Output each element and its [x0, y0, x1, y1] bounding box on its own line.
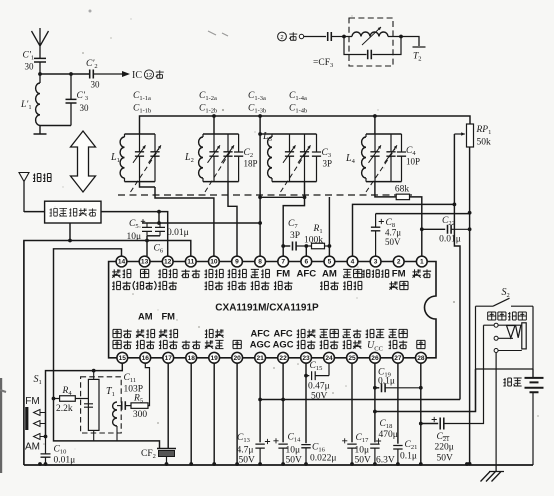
svg-text:50k: 50k [477, 138, 492, 148]
pin 15 circle [117, 352, 128, 363]
wire gang link L1 [131, 149, 160, 192]
label C6 value [167, 228, 189, 238]
node pin28 taps [419, 386, 423, 426]
svg-text:27: 27 [394, 355, 402, 362]
svg-text:300: 300 [133, 410, 148, 420]
svg-text:10P: 10P [406, 157, 420, 167]
svg-text:16: 16 [142, 355, 150, 362]
label C17 value1 [355, 446, 370, 456]
pin 7 circle [278, 256, 289, 267]
label pin23 t1 [297, 329, 316, 337]
svg-text:13: 13 [141, 259, 149, 266]
svg-text:FM: FM [161, 311, 175, 322]
label pin9 text0 [228, 269, 247, 277]
pin 19 circle [209, 352, 220, 363]
label C11 [124, 373, 137, 384]
op-amp IC U1 CXA1191 body [109, 262, 436, 358]
box T1 dashed [81, 377, 122, 433]
ground chassis inset [34, 126, 47, 135]
label C11 value [124, 385, 144, 395]
capacitor C21b [432, 325, 484, 429]
wire W1 filter out [101, 212, 168, 257]
wire RP1 bottom rail [469, 147, 471, 465]
svg-text:6: 6 [304, 259, 308, 266]
wire line2 Ucc [375, 369, 476, 412]
node C15 tap [304, 374, 308, 378]
svg-text:1: 1 [420, 259, 424, 266]
label R4 [62, 386, 73, 397]
node W1 stub [157, 210, 161, 225]
label C8 value1 [385, 228, 401, 238]
label C2 value [244, 159, 258, 169]
label C4 [406, 146, 416, 157]
svg-text:AFC: AFC [273, 328, 292, 339]
capacitor L1 tank gang b [149, 134, 162, 182]
capacitor L4 tank gang b [385, 134, 398, 182]
antenna terminal 天线 [19, 173, 29, 213]
label C19 [378, 368, 391, 379]
wire pin28 riser [420, 363, 422, 465]
transformer T2 terminal [401, 37, 426, 63]
wire C19 net [375, 387, 379, 389]
node W2 junctions [68, 239, 149, 243]
svg-text:0.01μ: 0.01μ [54, 456, 76, 466]
svg-text:30: 30 [25, 62, 35, 72]
label pin15 t2 [113, 340, 132, 348]
pin 23 circle [301, 352, 312, 363]
svg-text:10μ: 10μ [286, 446, 301, 456]
capacitor C10 [41, 437, 51, 466]
label C5 value [127, 232, 142, 242]
wire L2 tank bottom [203, 181, 239, 183]
wire W3 supply [142, 222, 260, 224]
svg-text:4.7μ: 4.7μ [385, 228, 401, 238]
pin 17 circle [163, 352, 174, 363]
connector earphone plug [507, 323, 527, 349]
svg-text:24: 24 [325, 355, 333, 362]
pin 13 circle [139, 256, 150, 267]
svg-text:0.1μ: 0.1μ [378, 377, 395, 387]
capacitor C7 [293, 242, 312, 251]
capacitor C13 [255, 439, 270, 465]
switch S2 [476, 298, 534, 306]
inductor L1 tank [120, 134, 124, 182]
wire pin7 C7 wire [283, 245, 290, 247]
label =CF3 [313, 58, 333, 69]
label C1-3b [248, 104, 266, 115]
wire antenna to filter [24, 211, 45, 213]
wire pin19 riser [213, 363, 215, 465]
pin 24 circle [324, 352, 335, 363]
label L4 [345, 153, 356, 165]
arrow to IC pin 12 [122, 71, 130, 77]
label C1-4b [289, 104, 307, 115]
label pin24 t2 [320, 340, 339, 348]
label pin2 text0 [392, 269, 406, 280]
label C8 [386, 218, 396, 229]
label pin21 t1 [250, 328, 269, 339]
svg-text:30: 30 [80, 103, 90, 113]
pin 11 circle [185, 256, 196, 267]
label IC name [215, 303, 319, 314]
symbol equivalence arrow [71, 131, 96, 192]
svg-text:5: 5 [328, 259, 332, 266]
wire L1 tank bottom [125, 181, 156, 183]
wire pin27 riser [397, 363, 399, 444]
wire L4 feed [374, 116, 376, 134]
svg-text:0.01μ: 0.01μ [439, 235, 461, 245]
label C13 value1 [237, 446, 254, 456]
wire L4 out to 68k [375, 182, 396, 197]
label C22 [442, 216, 455, 227]
pin 22 circle [278, 352, 289, 363]
wire pin20 riser [236, 363, 238, 465]
node C10 gnd [38, 462, 47, 466]
wire pin13 riser [146, 236, 148, 256]
pin 10 circle [209, 256, 220, 267]
inductor L4 tank [362, 134, 366, 182]
capacitor C1p [34, 57, 46, 74]
capacitor L4 tank gang a [369, 134, 382, 182]
label C7 [288, 219, 298, 230]
capacitor CF3 cap [344, 37, 401, 60]
pin 1 circle [416, 256, 427, 267]
label pin14 text1 [112, 281, 131, 289]
inductor L3 tank [268, 134, 272, 182]
label C21b value2 [437, 454, 454, 464]
label IC pin12 terminal [132, 70, 164, 81]
capacitor L3 tank fixed [312, 134, 321, 182]
capacitor C14 [273, 438, 287, 465]
svg-text:18P: 18P [244, 159, 258, 169]
label C1-1b [133, 104, 151, 115]
svg-text:2.2k: 2.2k [56, 404, 73, 414]
wire left rail [23, 241, 25, 466]
label pin23 t2 [297, 340, 316, 348]
svg-text:AM: AM [25, 442, 40, 453]
transformer T1 secondary [113, 402, 121, 441]
svg-text:AGC: AGC [273, 339, 294, 350]
wire gang link L3 [281, 149, 309, 192]
label C10 [54, 445, 67, 456]
capacitor L2 tank fixed [234, 134, 243, 182]
wire pin18 riser [190, 363, 192, 465]
svg-text:50V: 50V [385, 237, 401, 247]
svg-text:17: 17 [165, 355, 173, 362]
label pin9 text1 [228, 281, 247, 289]
label C18 value1 [379, 430, 398, 440]
node T1 top tap [92, 369, 96, 373]
label pin19 t1 [205, 329, 224, 337]
pin 3 circle [370, 256, 381, 267]
svg-text:100k: 100k [304, 236, 323, 246]
label CF2 [141, 449, 156, 460]
resistor R4 [54, 396, 89, 402]
node RP1 bottom [468, 211, 472, 466]
node S1 common [44, 435, 48, 439]
node L3 riser [258, 132, 262, 225]
svg-text:30: 30 [91, 80, 101, 90]
svg-text:18: 18 [188, 355, 196, 362]
battery BT1 [525, 369, 544, 465]
label L1 [110, 152, 120, 164]
label pin8 text0 [251, 269, 270, 277]
capacitor C5 [141, 219, 152, 236]
svg-text:AM: AM [138, 311, 153, 322]
svg-text:3P: 3P [290, 231, 300, 241]
label 耳机插头 [488, 312, 527, 320]
svg-text:50V: 50V [311, 392, 328, 402]
label pin19 t2 [205, 340, 224, 348]
label 电源 [503, 378, 521, 386]
wire antenna node [40, 73, 89, 75]
wire pin23 riser [305, 363, 307, 443]
pin 4 circle [347, 256, 358, 267]
label R4 value [56, 404, 73, 414]
block filter 通用滤波器 [45, 201, 101, 223]
node C7 pin7 [281, 244, 285, 248]
wire L4 tank top [366, 133, 402, 135]
label pin24 t1 [320, 329, 339, 337]
label pin16 t2 [136, 340, 155, 348]
transformer T1 primary [84, 371, 99, 441]
node R4 tap [52, 397, 56, 401]
wire pin26 riser [374, 363, 376, 442]
label pin13 text1 [133, 281, 156, 290]
node pin1 riser [420, 227, 424, 231]
label pin25 t2 [343, 340, 362, 348]
svg-text:0.47μ: 0.47μ [308, 382, 330, 392]
capacitor C3p [66, 74, 77, 126]
label pin7 text1 [274, 281, 293, 289]
node ground bus dots [165, 462, 423, 466]
label C14 value2 [286, 456, 303, 466]
switch S1 [25, 407, 45, 440]
node CF3 ends [342, 35, 403, 39]
capacitor L4 tank fixed [397, 134, 406, 182]
capacitor C21a [393, 446, 402, 466]
svg-text:22: 22 [279, 355, 287, 362]
pin 5 circle [324, 256, 335, 267]
node scan speckle [43, 15, 539, 449]
wire pin17 riser [167, 363, 169, 448]
label pin1 text0 [412, 269, 431, 277]
wire L1 tank top [125, 133, 156, 135]
svg-text:50V: 50V [286, 456, 303, 466]
label R5 value [133, 410, 148, 420]
label pin6 text0 [296, 269, 316, 280]
capacitor C2p [90, 70, 122, 79]
label C4 value [406, 157, 420, 167]
svg-text:8: 8 [258, 259, 262, 266]
svg-text:220μ: 220μ [435, 443, 454, 453]
wire L2 feed [213, 116, 215, 134]
capacitor L3 tank gang a [283, 134, 296, 182]
pin 21 circle [255, 352, 266, 363]
wire L2 tank top [203, 133, 239, 135]
label 天线 [33, 174, 51, 182]
label C1-3a [248, 91, 266, 102]
capacitor C6 [155, 223, 165, 236]
wire 68k to pin1 [410, 197, 422, 256]
label C3 [322, 148, 332, 159]
label S2 [502, 287, 510, 299]
filter CF2 [157, 449, 176, 466]
svg-text:0.1μ: 0.1μ [400, 452, 417, 462]
capacitor inset series [304, 32, 344, 41]
label R5 [133, 394, 143, 405]
label pin10 text0 [205, 269, 224, 277]
label pin11 text0 [181, 269, 200, 277]
svg-text:470μ: 470μ [379, 430, 398, 440]
label C14 [288, 433, 302, 444]
wire L3 tank bottom [272, 181, 317, 183]
pin 2 circle [393, 256, 404, 267]
label pin26 Ucc [367, 340, 383, 352]
label C1-1a [133, 91, 151, 102]
svg-text:FM: FM [25, 396, 39, 407]
label pin16 t0 [138, 311, 153, 322]
label pin27 t2 [389, 340, 408, 348]
svg-text:3: 3 [374, 259, 378, 266]
wire wiper riser [454, 134, 460, 400]
svg-text:AM: AM [322, 269, 337, 280]
svg-text:6.3V: 6.3V [376, 456, 395, 466]
svg-text:4.7μ: 4.7μ [237, 446, 254, 456]
label C21a [405, 440, 418, 451]
label C3p [77, 91, 89, 102]
node bus2 left [258, 398, 262, 402]
wire pin25 riser [351, 363, 353, 442]
label pin15 t1 [113, 329, 132, 337]
label S1 [34, 374, 42, 386]
svg-text:15: 15 [119, 355, 127, 362]
svg-text:20: 20 [233, 355, 241, 362]
label C5 [129, 219, 139, 230]
label pin21 t2 [250, 339, 271, 350]
wire pin22 riser [282, 363, 284, 442]
wire pin14 net [54, 249, 160, 449]
inductor L1p [36, 74, 40, 125]
label C17 [356, 433, 370, 444]
capacitor C18 [370, 438, 381, 465]
label C1p value [25, 62, 35, 72]
label pin12 text0 [158, 269, 177, 277]
resistor R5 [131, 363, 150, 408]
label pin13 text0 [140, 269, 148, 277]
svg-text:10: 10 [210, 259, 218, 266]
label pin17 t2 [159, 340, 178, 348]
svg-text:26: 26 [371, 355, 379, 362]
wire C21b left [421, 423, 438, 425]
capacitor C15 [306, 363, 329, 380]
node L3 out [303, 195, 307, 199]
node bus2 pin22 [281, 398, 285, 402]
capacitor L2 tank gang a [208, 134, 221, 182]
label C6 [154, 244, 164, 255]
resistor R1 [312, 243, 330, 249]
label C15 value1 [308, 382, 330, 392]
svg-text:11: 11 [187, 259, 194, 266]
node pin26 taps [373, 386, 377, 414]
wire W2 right [70, 241, 191, 257]
label C18 value2 [376, 456, 395, 466]
label pin18 t2 [182, 340, 201, 348]
wire L3 tank top [272, 133, 317, 135]
wire L4 tank bottom [366, 181, 402, 183]
pin 26 circle [370, 352, 381, 363]
label pin17 t0 [161, 311, 175, 322]
label pin12 text1 [158, 281, 177, 289]
capacitor C16 [301, 445, 310, 465]
label pin4 text0 [343, 269, 362, 277]
label pin5 text1 [320, 281, 339, 289]
svg-text:50V: 50V [355, 456, 372, 466]
label pin4 text1 [343, 281, 362, 289]
ground main [481, 465, 505, 482]
wire pin6 riser [305, 246, 307, 256]
label C18 [380, 419, 393, 430]
label R1 value [304, 236, 323, 246]
label C15 [310, 361, 323, 372]
label 通用滤波器 [50, 208, 97, 216]
wire RP1 wiper arrow [454, 132, 464, 136]
pin 14 circle [116, 256, 127, 267]
label C19 value [378, 377, 395, 387]
wire gang link L2 [205, 149, 232, 192]
pin 28 circle [416, 352, 427, 363]
svg-text:2: 2 [280, 35, 283, 41]
label C10 value [54, 456, 76, 466]
label C7 value [290, 231, 300, 241]
pin 20 circle [232, 352, 243, 363]
wire S1 to pin15 [46, 363, 123, 436]
svg-text:10μ: 10μ [127, 232, 142, 242]
node scan marks [0, 10, 228, 474]
node wiper tee [453, 203, 457, 207]
capacitor C8 [371, 214, 384, 257]
label pin28 t2 [417, 340, 425, 348]
node top bus junctions [212, 114, 377, 118]
inductor CF3 coil [344, 27, 401, 45]
svg-text:CXA1191M/CXA1191P: CXA1191M/CXA1191P [215, 303, 319, 314]
svg-text:0.01μ: 0.01μ [167, 228, 189, 238]
label C17 value2 [355, 456, 372, 466]
wire L1 tap [140, 182, 156, 187]
svg-text:21: 21 [256, 355, 264, 362]
svg-text:AFC: AFC [296, 269, 316, 280]
resistor 68k [396, 194, 409, 200]
label pin25 t1 [343, 329, 362, 337]
label C15 value2 [311, 392, 328, 402]
label L1p [20, 100, 32, 111]
label RP1 value [477, 138, 492, 148]
label C3 value [323, 159, 333, 169]
label C16 value [310, 454, 336, 464]
wire C5C6 bottom [147, 235, 160, 237]
label C1-2a [199, 91, 217, 102]
label C13 [237, 433, 250, 444]
wire L3 top extension [260, 133, 272, 135]
svg-text:19: 19 [211, 355, 219, 362]
label C16 [312, 443, 326, 454]
label pin5 text0 [322, 269, 337, 280]
svg-text:12: 12 [146, 73, 152, 79]
capacitor L3 tank gang b [298, 134, 311, 182]
box headphone jack [476, 306, 534, 411]
label C21b value1 [435, 443, 454, 453]
wire C22 net [422, 228, 445, 230]
